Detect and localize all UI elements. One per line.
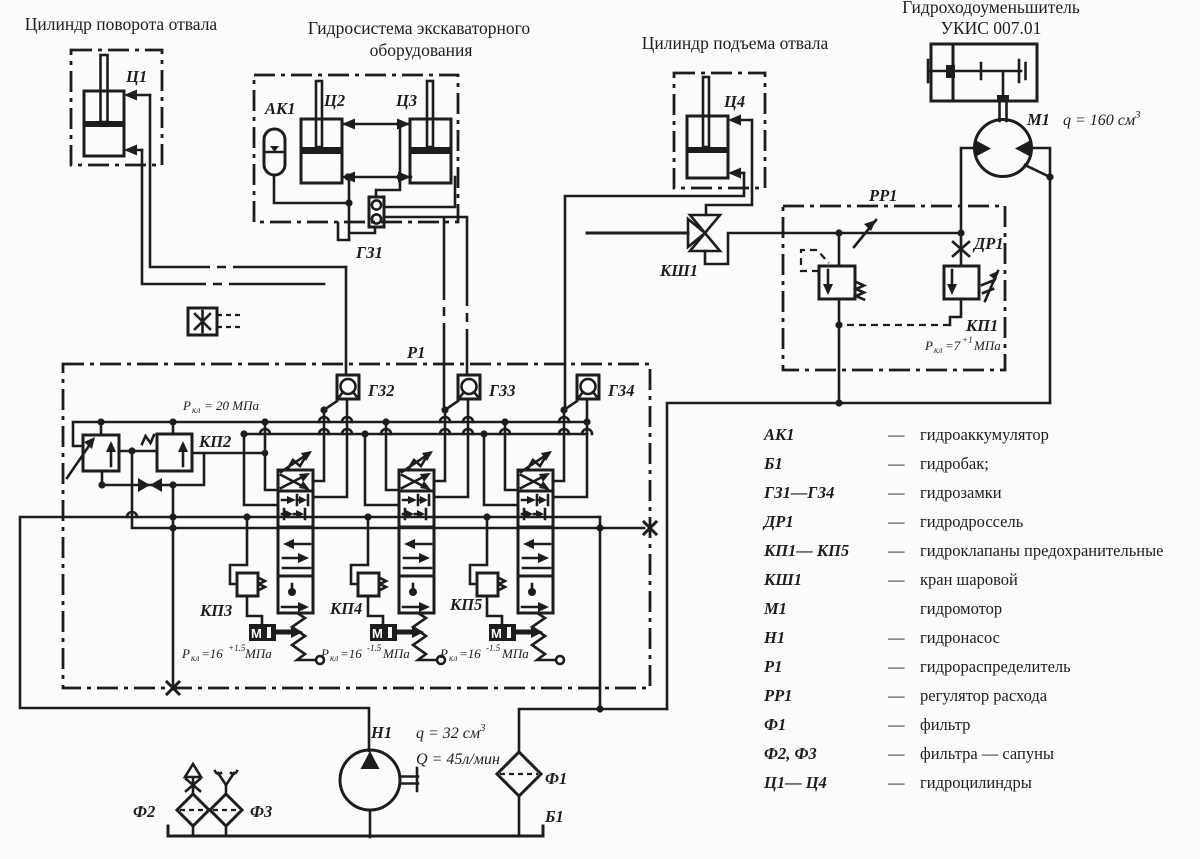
svg-text:КП1: КП1 [965,316,998,335]
svg-text:-1.5: -1.5 [486,643,501,653]
svg-text:—: — [887,570,905,589]
wire return drop to tank line [599,517,602,709]
svg-text:Ф2: Ф2 [133,802,155,821]
dash-dot enclosure Ц4 [674,73,765,188]
node top-bottom link [396,173,403,180]
valve square КП2-B [157,434,192,471]
dash-dot enclosure РР1 [783,206,1005,370]
svg-text:Ц3: Ц3 [395,91,417,110]
svg-text:гидромотор: гидромотор [920,599,1002,618]
svg-text:Цилиндр подъема отвала: Цилиндр подъема отвала [642,33,829,53]
svg-text:=16: =16 [201,646,223,661]
svg-text:—: — [887,454,905,473]
svg-text:Р: Р [924,338,933,353]
wire lower loop КП2 [102,453,265,485]
wire supply to КШ1 [587,232,688,235]
port arrow Ц1 top [128,94,150,97]
boundary mark x bottom [167,682,179,694]
svg-text:+1: +1 [962,335,973,345]
svg-text:М1: М1 [1026,110,1050,129]
dash-dot enclosure гидросистема [254,75,458,222]
wire break gaps [210,261,217,273]
adjustable spring КП1 [985,271,998,301]
tank line Б1 [168,826,543,836]
valve square РР1 left [819,266,855,299]
wire pump outlet to tank [369,810,372,837]
svg-text:КП1— КП5: КП1— КП5 [763,541,849,560]
throttle arrow on inlet [854,220,876,247]
pilot dashed КП1 [839,324,950,326]
svg-text:регулятор расхода: регулятор расхода [920,686,1048,705]
svg-text:гидродроссель: гидродроссель [920,512,1024,531]
node ГЗ4 bus end [583,418,590,425]
wire link КП2 A-B [119,450,157,453]
svg-text:—: — [887,425,905,444]
filter Ф1 [497,752,541,796]
dash-dot enclosure Ц1 [71,50,162,165]
svg-text:КП2: КП2 [198,432,231,451]
svg-text:гидробак;: гидробак; [920,454,989,473]
svg-text:Ц2: Ц2 [323,91,345,110]
svg-text:КШ1: КШ1 [659,261,698,280]
pump shaft [400,768,418,791]
spring КП2-B [142,435,154,444]
piston Ц1 [85,121,123,127]
svg-text:ГЗ1—ГЗ4: ГЗ1—ГЗ4 [763,483,834,502]
svg-text:гидрозамки: гидрозамки [920,483,1002,502]
filter Ф3 [210,794,242,826]
svg-text:q = 160 см: q = 160 см [1063,112,1135,129]
wire bottom collector [519,709,667,752]
wire motor left down to РР1 [961,148,975,233]
svg-text:3: 3 [479,722,486,734]
svg-text:Р: Р [320,646,329,661]
adjust arrow КП2-A [67,440,93,478]
svg-text:Г33: Г33 [488,381,515,400]
svg-text:КП5: КП5 [449,595,482,614]
wire hook at box bottom [338,223,349,240]
wire to ГЗ1 top [376,177,400,197]
wire bottom ports Ц2-Ц3 [342,176,411,179]
port arrow Ц4 bottom [732,172,744,175]
wire x349 down to ГЗ1 bottom [349,177,375,240]
svg-text:Ф1: Ф1 [764,715,786,734]
wire top ports Ц2-Ц3 [342,123,410,126]
cylinder Ц4 body [687,116,728,178]
wire bus B [244,433,587,436]
svg-text:Ц4: Ц4 [723,92,745,111]
svg-text:Ф3: Ф3 [250,802,272,821]
valve square КП2-A [83,435,119,471]
svg-text:КП4: КП4 [329,599,362,618]
wire ГЗ1 stub to Ц3 bottom [384,177,455,207]
hydraulic motor М1 [975,120,1032,177]
svg-text:гидрораспределитель: гидрораспределитель [920,657,1071,676]
svg-text:—: — [887,744,905,763]
wire bus A (top) [73,422,587,446]
relief valve КП1 [944,266,979,299]
svg-text:Ф2, Ф3: Ф2, Ф3 [764,744,817,763]
wire РР1 bottom bus [667,403,1050,709]
cylinder Ц1 body [84,91,124,156]
svg-text:гидроклапаны предохранительные: гидроклапаны предохранительные [920,541,1163,560]
svg-text:Р: Р [181,646,190,661]
svg-text:М1: М1 [763,599,787,618]
svg-text:+1.5: +1.5 [228,643,246,653]
svg-text:фильтр: фильтр [920,715,970,734]
svg-text:—: — [887,628,905,647]
node pilot junction [835,321,842,328]
svg-text:МПа: МПа [244,646,272,661]
svg-text:Цилиндр поворота отвала: Цилиндр поворота отвала [25,14,218,34]
wire crossing hops bus A [319,417,569,422]
svg-text:Б1: Б1 [763,454,783,473]
svg-text:Ф1: Ф1 [545,769,567,788]
svg-text:—: — [887,657,905,676]
wire ГЗ1 stub2 to ГЗ3 riser [384,217,467,410]
svg-text:—: — [887,512,905,531]
svg-text:—: — [887,686,905,705]
svg-text:РР1: РР1 [868,186,897,205]
cylinder Ц3 body [410,119,451,183]
wire motor right down [1031,148,1050,403]
svg-text:оборудования: оборудования [370,40,473,60]
boundary mark x [644,522,656,534]
svg-text:гидроцилиндры: гидроцилиндры [920,773,1032,792]
wire pressure bus to pump [20,517,600,751]
piston Ц3 [411,147,450,154]
node РР1 inlet [835,229,842,236]
svg-text:гидроаккумулятор: гидроаккумулятор [920,425,1049,444]
connector block [188,308,217,335]
wire risers КП2 [101,422,173,435]
svg-text:гидронасос: гидронасос [920,628,1000,647]
wire ГЗ2 riser top [345,267,348,375]
wire КШ1 bottom to РР1 [705,233,961,264]
svg-text:фильтра — сапуны: фильтра — сапуны [920,744,1054,763]
svg-text:Г32: Г32 [367,381,394,400]
svg-text:КШ1: КШ1 [763,570,802,589]
svg-text:Н1: Н1 [370,723,392,742]
node junction АК1 line [345,199,352,206]
dash-dot enclosure Р1 [63,364,650,688]
ball valve КШ1 triangles [690,215,720,233]
pilot dashed РР1 left [801,250,829,271]
svg-text:Б1: Б1 [544,807,564,826]
throttle bowtie КП2 [138,478,162,492]
svg-text:q = 32 см: q = 32 см [416,725,480,742]
svg-text:Р: Р [182,398,191,413]
svg-text:Гидроходоуменьшитель: Гидроходоуменьшитель [902,0,1080,17]
svg-text:РР1: РР1 [763,686,792,705]
hydraulic lock ГЗ1 [369,197,384,227]
wire АК1 down and right [274,175,349,203]
node drain crossings [169,513,176,520]
wire Ц4 top port to КШ1 [706,120,752,215]
svg-text:кл: кл [330,653,338,663]
svg-text:Р: Р [439,646,448,661]
wire riser РР1 left valve [838,233,841,403]
svg-text:кл: кл [449,653,457,663]
valve section 2 with ГЗ3 and КП4 [351,375,480,664]
svg-text:=7: =7 [945,338,961,353]
gearbox housing [931,44,1037,101]
svg-text:Н1: Н1 [763,628,785,647]
svg-text:Ц1: Ц1 [125,67,147,86]
svg-text:ДР1: ДР1 [762,512,794,531]
svg-text:МПа: МПа [973,338,1001,353]
svg-text:—: — [887,541,905,560]
svg-text:3: 3 [1134,109,1141,121]
gear clutch block [946,65,955,78]
svg-text:кл: кл [191,653,199,663]
gearbox shaft [928,60,1026,96]
wire return bus [132,451,644,528]
accumulator АК1 [264,129,285,175]
svg-text:АК1: АК1 [763,425,794,444]
wire КП2 drain drop [172,485,175,689]
valve section 3 with ГЗ4 and КП5 [470,375,599,664]
piston Ц4 [688,147,727,153]
svg-text:АК1: АК1 [264,99,295,118]
svg-text:=16: =16 [340,646,362,661]
throttle ДР1 [953,242,969,256]
wire Ц4 bottom port long line to ГЗ4 area riser [565,173,744,410]
svg-text:кл: кл [934,345,942,355]
svg-text:Q = 45л/мин: Q = 45л/мин [416,751,500,768]
svg-text:—: — [887,483,905,502]
node motor drain [1046,173,1053,180]
svg-text:ДР1: ДР1 [972,234,1004,253]
svg-text:—: — [887,773,905,792]
wire Ц1 bottom port to riser [142,150,324,284]
svg-text:Ц1— Ц4: Ц1— Ц4 [763,773,827,792]
port arrow Ц4 top [732,119,752,122]
svg-text:Р1: Р1 [406,343,425,362]
motor drain diagonal [1025,165,1050,177]
rod Ц1 [101,55,108,122]
pump Н1 [340,750,400,810]
svg-text:Гидросистема экскаваторного: Гидросистема экскаваторного [308,18,531,38]
svg-text:УКИС 007.01: УКИС 007.01 [941,18,1042,38]
svg-text:-1.5: -1.5 [367,643,382,653]
rod Ц4 [703,77,709,147]
svg-text:Г34: Г34 [607,381,634,400]
svg-text:=16: =16 [459,646,481,661]
svg-text:кран шаровой: кран шаровой [920,570,1018,589]
svg-text:ГЗ1: ГЗ1 [355,243,383,262]
shaft to motor [1000,101,1007,121]
svg-text:кл: кл [192,405,200,415]
rod Ц3 [427,81,433,147]
spring РР1 left [856,282,864,300]
wire КП1 riser [950,233,961,325]
node return [596,524,603,531]
wire Ц1 top port to ГЗ2 riser [150,95,346,267]
svg-text:КП3: КП3 [199,601,232,620]
svg-text:—: — [887,715,905,734]
wire crossing hops bus B [260,429,592,434]
svg-text:МПа: МПа [382,646,410,661]
wire link x400 [399,124,402,177]
wire break gaps on risers [438,300,450,307]
gearbox output crossing [997,95,1009,102]
svg-text:Р1: Р1 [763,657,782,676]
piston Ц2 [302,147,341,154]
svg-text:= 20 МПа: = 20 МПа [204,398,259,413]
port arrow Ц1 bottom [128,149,142,152]
svg-text:МПа: МПа [501,646,529,661]
valve section 1 with ГЗ2 and КП3 [230,375,359,664]
cylinder Ц2 body [301,119,342,183]
rod Ц2 [316,81,322,147]
filter Ф2 [177,794,209,826]
